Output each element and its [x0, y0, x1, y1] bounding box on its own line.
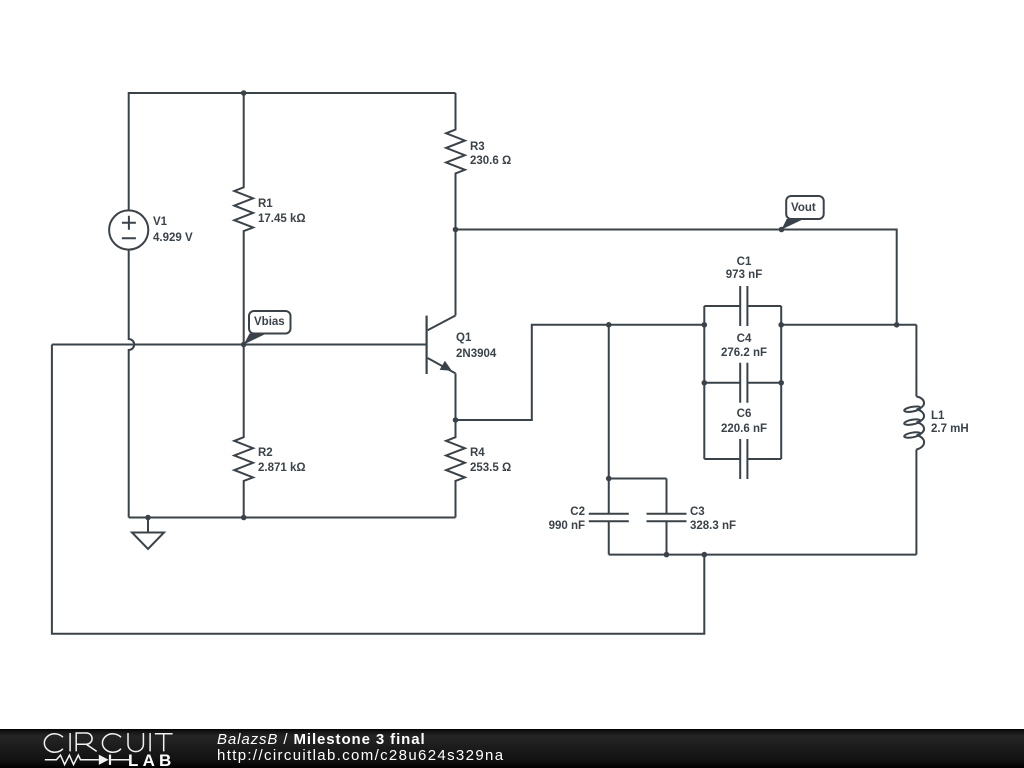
- wire bottom rail to L1: [609, 554, 917, 556]
- wire R3 to collector: [455, 230, 457, 316]
- CircuitLab logo: [44, 733, 172, 765]
- inductor L1: [904, 325, 924, 555]
- resistor R4: [446, 420, 465, 518]
- capacitor C6: [704, 439, 781, 479]
- label L1: [931, 411, 944, 422]
- junction block right top: [778, 322, 784, 328]
- label C1 value 973 nF: [694, 270, 794, 281]
- label V1: [153, 217, 167, 228]
- label C2 value 990 nF: [485, 521, 585, 532]
- label C4 value 276.2 nF: [694, 348, 794, 359]
- wire V1 bottom with hop over Vbias: [129, 250, 135, 518]
- capacitor C1: [704, 286, 781, 326]
- junction C3 bottom: [664, 552, 670, 558]
- label Q1: [456, 333, 471, 344]
- wire cap block right: [780, 306, 782, 459]
- voltage source V1: [109, 210, 148, 249]
- junction bottom rail: [702, 552, 708, 558]
- junction node L1: [894, 322, 900, 328]
- label C4: [694, 334, 794, 345]
- capacitor C3: [647, 479, 687, 555]
- footer bar: [0, 729, 1024, 768]
- label C3: [690, 507, 705, 518]
- junction block left top: [702, 322, 708, 328]
- node flag Vout: [782, 196, 824, 230]
- junction C2 rail: [606, 476, 612, 482]
- resistor R1: [234, 93, 253, 345]
- wire feedback loop left-bottom: [52, 345, 704, 634]
- label R3: [470, 142, 485, 153]
- junction Vbias: [241, 342, 247, 348]
- label R4 value 253.5 Ohm: [470, 463, 511, 474]
- label R1: [258, 199, 273, 210]
- ground: [132, 518, 164, 549]
- footer logo LAB text: [128, 751, 176, 768]
- wire C2 branch down: [608, 325, 610, 479]
- footer url: [217, 747, 504, 764]
- label R3 value 230.6 Ohm: [470, 156, 511, 167]
- wire cap block left: [703, 306, 705, 459]
- junction Vout flag: [779, 227, 785, 233]
- label flag Vbias text: [254, 317, 285, 328]
- wire top rail V+: [129, 93, 456, 210]
- junction R2 bottom: [241, 515, 247, 521]
- label R2 value 2.871 kOhm: [258, 463, 306, 474]
- label L1 value 2.7 mH: [931, 424, 969, 435]
- resistor R3: [446, 93, 465, 230]
- junction emitter: [453, 417, 459, 423]
- label flag Vout text: [791, 203, 816, 214]
- label V1 value 4.929 V: [153, 233, 193, 244]
- label R4: [470, 448, 485, 459]
- footer title BalazsB / Milestone 3 final: [217, 731, 426, 748]
- junction ground: [145, 515, 151, 521]
- label C2: [485, 507, 585, 518]
- capacitor C2: [589, 479, 629, 555]
- label C6: [694, 409, 794, 420]
- capacitor C4: [704, 363, 781, 403]
- node flag Vbias: [244, 311, 291, 345]
- wire Vout horizontal: [456, 230, 897, 325]
- label R2: [258, 448, 273, 459]
- wire Vbias horizontal: [52, 344, 426, 346]
- wire C2-C3 top rail: [609, 478, 667, 480]
- junction block left mid: [702, 380, 708, 386]
- label C1: [694, 257, 794, 268]
- junction block right mid: [778, 380, 784, 386]
- label R1 value 17.45 kOhm: [258, 214, 306, 225]
- label Q1 value 2N3904: [456, 349, 496, 360]
- transistor Q1: [427, 316, 456, 421]
- label C6 value 220.6 nF: [694, 424, 794, 435]
- junction C2 top: [606, 322, 612, 328]
- wire node to L1 top: [781, 324, 916, 326]
- wire ground rail bottom-left: [129, 517, 456, 519]
- resistor R2: [234, 345, 253, 518]
- junction top R1: [241, 90, 247, 96]
- label C3 value 328.3 nF: [690, 521, 736, 532]
- junction Vout at R3: [453, 227, 459, 233]
- wire emitter to C-block: [456, 325, 705, 420]
